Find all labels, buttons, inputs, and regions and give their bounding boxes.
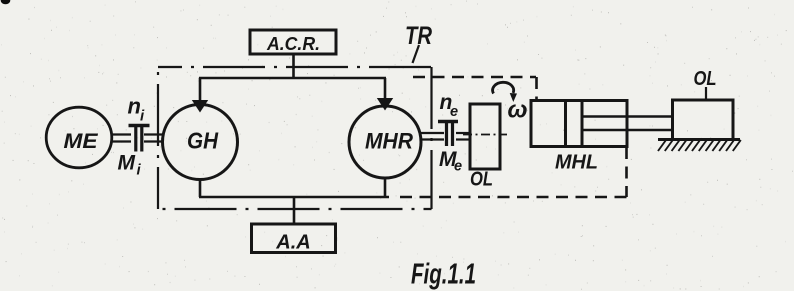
- svg-text:n: n: [128, 94, 141, 119]
- svg-text:OL: OL: [470, 169, 493, 191]
- svg-text:MHL: MHL: [555, 152, 598, 174]
- svg-text:Fig.1.1: Fig.1.1: [411, 259, 476, 291]
- svg-text:GH: GH: [187, 128, 218, 154]
- svg-text:TR: TR: [405, 22, 432, 50]
- svg-text:M: M: [118, 152, 136, 175]
- svg-text:ω: ω: [508, 97, 528, 124]
- svg-text:MHR: MHR: [365, 129, 413, 154]
- svg-text:e: e: [450, 104, 458, 120]
- svg-text:OL: OL: [694, 68, 717, 90]
- svg-text:ME: ME: [64, 129, 99, 153]
- svg-text:A.C.R.: A.C.R.: [266, 33, 320, 54]
- svg-text:e: e: [454, 159, 462, 175]
- svg-text:A.A: A.A: [275, 231, 310, 254]
